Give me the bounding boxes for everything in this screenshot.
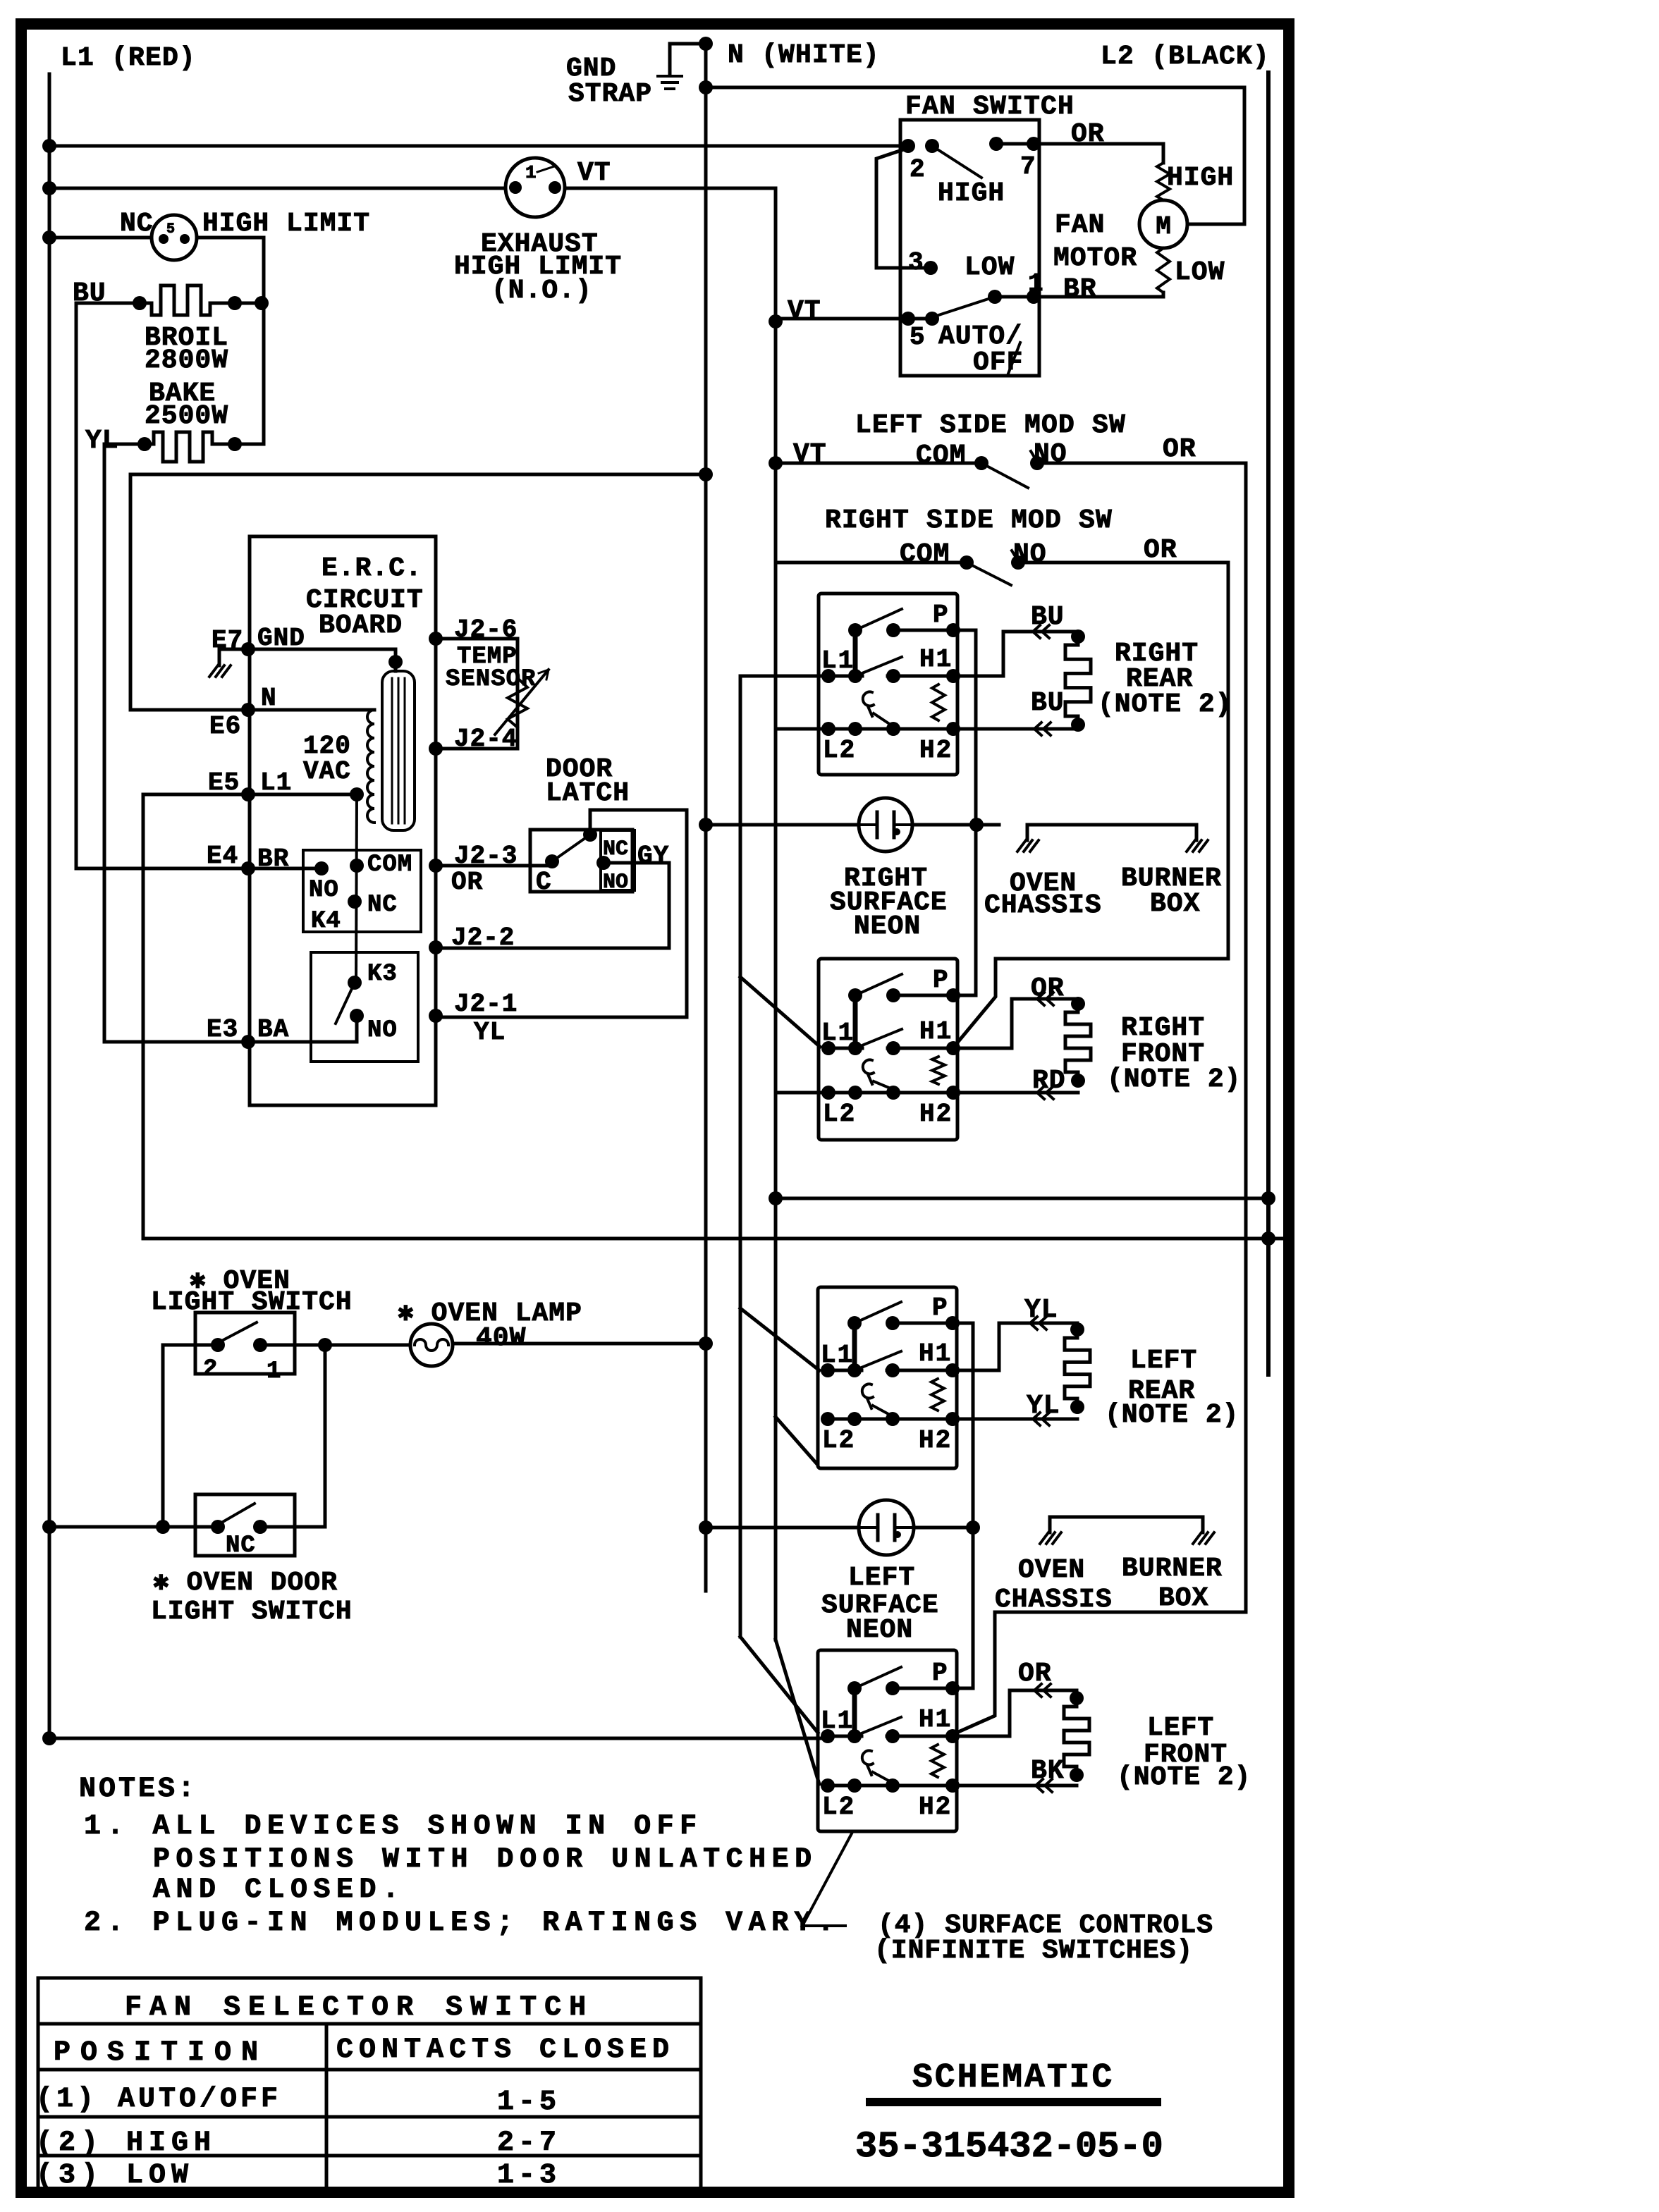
svg-text:E6: E6 — [209, 712, 241, 741]
svg-text:(NOTE 2): (NOTE 2) — [1117, 1762, 1251, 1793]
svg-text:N (WHITE): N (WHITE) — [728, 40, 880, 70]
svg-text:CONTACTS CLOSED: CONTACTS CLOSED — [336, 2034, 675, 2066]
svg-text:VT: VT — [793, 439, 827, 469]
svg-text:K3: K3 — [367, 961, 398, 988]
svg-text:LEFT: LEFT — [848, 1563, 915, 1593]
svg-text:5: 5 — [166, 221, 175, 238]
svg-text:L1 (RED): L1 (RED) — [61, 43, 196, 73]
svg-text:L1: L1 — [821, 1707, 854, 1735]
svg-text:BU: BU — [1031, 602, 1065, 632]
svg-text:HIGH LIMIT: HIGH LIMIT — [202, 209, 370, 239]
svg-text:L1: L1 — [821, 1341, 854, 1370]
svg-text:BURNER: BURNER — [1122, 1554, 1223, 1584]
svg-text:NC: NC — [226, 1532, 256, 1559]
svg-text:OVEN: OVEN — [1018, 1555, 1085, 1585]
svg-text:LOW: LOW — [965, 252, 1015, 283]
svg-text:BOARD: BOARD — [319, 610, 403, 641]
svg-text:STRAP: STRAP — [568, 79, 652, 109]
svg-text:OR: OR — [1018, 1659, 1052, 1689]
svg-text:LEFT: LEFT — [1130, 1346, 1197, 1376]
svg-text:FAN SELECTOR SWITCH: FAN SELECTOR SWITCH — [125, 1992, 594, 2024]
svg-text:NC: NC — [120, 209, 154, 239]
svg-text:C: C — [536, 868, 552, 897]
svg-text:2: 2 — [910, 155, 925, 184]
svg-text:NOTES:: NOTES: — [79, 1774, 197, 1805]
svg-text:L2: L2 — [822, 1793, 855, 1821]
svg-text:LIGHT SWITCH: LIGHT SWITCH — [151, 1597, 353, 1627]
svg-text:LEFT SIDE MOD SW: LEFT SIDE MOD SW — [855, 410, 1126, 441]
svg-text:HIGH: HIGH — [1167, 163, 1234, 193]
svg-text:P: P — [933, 966, 948, 995]
svg-text:NEON: NEON — [846, 1615, 913, 1645]
svg-text:NO: NO — [1034, 439, 1067, 469]
svg-text:1: 1 — [1028, 269, 1043, 298]
svg-text:2800W: 2800W — [145, 345, 228, 376]
svg-text:3: 3 — [908, 248, 924, 277]
svg-text:FAN: FAN — [1055, 210, 1105, 240]
svg-text:H1: H1 — [919, 645, 953, 674]
svg-text:H1: H1 — [919, 1705, 952, 1734]
svg-text:E4: E4 — [207, 842, 238, 871]
svg-text:H1: H1 — [919, 1017, 953, 1046]
svg-text:E.R.C.: E.R.C. — [322, 553, 422, 584]
svg-text:(3) LOW: (3) LOW — [36, 2160, 194, 2192]
svg-text:120: 120 — [303, 732, 351, 761]
svg-text:POSITION: POSITION — [54, 2037, 268, 2069]
svg-text:COM: COM — [916, 441, 966, 471]
svg-text:K4: K4 — [311, 908, 341, 935]
svg-text:L1: L1 — [821, 1019, 855, 1047]
svg-text:OR: OR — [1163, 434, 1196, 465]
svg-text:HIGH: HIGH — [938, 178, 1005, 209]
svg-text:40W: 40W — [476, 1323, 526, 1353]
svg-text:(N.O.): (N.O.) — [491, 276, 592, 306]
svg-text:CHASSIS: CHASSIS — [984, 890, 1102, 921]
svg-text:COM: COM — [900, 539, 950, 570]
svg-text:2-7: 2-7 — [497, 2127, 561, 2159]
svg-text:NC: NC — [367, 892, 398, 918]
svg-text:OR: OR — [451, 868, 483, 897]
svg-text:L2 (BLACK): L2 (BLACK) — [1101, 42, 1270, 72]
svg-text:1-3: 1-3 — [497, 2160, 561, 2192]
svg-text:NEON: NEON — [854, 911, 921, 942]
svg-text:COM: COM — [367, 852, 412, 878]
svg-text:J2-1: J2-1 — [454, 990, 518, 1019]
svg-text:2500W: 2500W — [145, 401, 228, 431]
svg-text:5: 5 — [910, 323, 925, 352]
svg-text:(NOTE 2): (NOTE 2) — [1105, 1400, 1239, 1430]
svg-text:H2: H2 — [919, 1426, 952, 1455]
svg-text:FAN SWITCH: FAN SWITCH — [905, 92, 1075, 122]
svg-text:L1: L1 — [821, 646, 855, 675]
svg-text:BR: BR — [1063, 274, 1097, 305]
svg-text:YL: YL — [85, 426, 119, 456]
svg-text:1: 1 — [267, 1358, 281, 1385]
svg-text:VT: VT — [788, 296, 821, 326]
svg-text:7: 7 — [1020, 152, 1036, 181]
svg-text:NO: NO — [1013, 539, 1047, 570]
svg-text:H2: H2 — [919, 1793, 952, 1821]
svg-text:(INFINITE SWITCHES): (INFINITE SWITCHES) — [874, 1936, 1193, 1966]
svg-text:P: P — [932, 1294, 948, 1322]
svg-text:YL: YL — [1027, 1391, 1060, 1421]
svg-text:(NOTE 2): (NOTE 2) — [1107, 1064, 1241, 1095]
svg-text:(NOTE 2): (NOTE 2) — [1098, 689, 1232, 720]
svg-text:OR: OR — [1071, 119, 1105, 149]
svg-text:L2: L2 — [823, 736, 856, 765]
svg-text:(1) AUTO/OFF: (1) AUTO/OFF — [36, 2084, 281, 2115]
svg-text:L2: L2 — [823, 1100, 856, 1129]
svg-text:2. PLUG-IN MODULES; RATINGS VA: 2. PLUG-IN MODULES; RATINGS VARY. — [84, 1907, 840, 1939]
svg-text:LATCH: LATCH — [546, 778, 630, 809]
svg-text:YL: YL — [1024, 1295, 1058, 1325]
svg-text:(2) HIGH: (2) HIGH — [36, 2127, 216, 2159]
svg-text:1. ALL DEVICES SHOWN IN OFF: 1. ALL DEVICES SHOWN IN OFF — [84, 1811, 703, 1843]
svg-text:M: M — [1156, 212, 1171, 241]
svg-text:P: P — [933, 601, 948, 629]
svg-text:35-315432-05-0: 35-315432-05-0 — [855, 2126, 1163, 2168]
svg-text:BOX: BOX — [1158, 1583, 1208, 1614]
svg-text:L2: L2 — [822, 1426, 855, 1455]
svg-text:NO: NO — [309, 877, 339, 904]
svg-text:CHASSIS: CHASSIS — [995, 1585, 1113, 1615]
svg-text:BK: BK — [1031, 1756, 1065, 1786]
svg-text:YL: YL — [474, 1018, 506, 1047]
svg-text:P: P — [932, 1659, 948, 1688]
svg-text:BOX: BOX — [1150, 889, 1200, 919]
svg-text:MOTOR: MOTOR — [1053, 243, 1137, 274]
svg-text:RIGHT SIDE MOD SW: RIGHT SIDE MOD SW — [825, 505, 1113, 536]
svg-text:OR: OR — [1031, 973, 1065, 1004]
svg-text:LOW: LOW — [1175, 257, 1225, 288]
svg-text:RD: RD — [1032, 1066, 1066, 1096]
svg-text:1-5: 1-5 — [497, 2087, 561, 2118]
svg-text:OR: OR — [1144, 535, 1177, 565]
svg-text:NO: NO — [603, 871, 628, 895]
svg-text:E3: E3 — [207, 1015, 238, 1044]
svg-text:NO: NO — [367, 1017, 398, 1044]
svg-text:1: 1 — [525, 162, 537, 183]
svg-text:✱ OVEN DOOR: ✱ OVEN DOOR — [153, 1568, 338, 1598]
svg-text:VT: VT — [577, 158, 611, 188]
svg-text:BU: BU — [1031, 688, 1065, 718]
svg-text:H2: H2 — [919, 1100, 953, 1129]
svg-text:H1: H1 — [919, 1339, 952, 1368]
svg-text:GY: GY — [637, 842, 669, 871]
svg-text:SCHEMATIC: SCHEMATIC — [912, 2059, 1114, 2097]
svg-text:2: 2 — [203, 1356, 217, 1383]
svg-text:H2: H2 — [919, 736, 953, 765]
svg-text:VAC: VAC — [303, 757, 351, 786]
svg-text:AND CLOSED.: AND CLOSED. — [153, 1874, 405, 1906]
svg-text:BA: BA — [257, 1015, 289, 1044]
svg-text:LEFT: LEFT — [1147, 1713, 1214, 1743]
svg-text:POSITIONS WITH DOOR UNLATCHED: POSITIONS WITH DOOR UNLATCHED — [153, 1844, 818, 1876]
